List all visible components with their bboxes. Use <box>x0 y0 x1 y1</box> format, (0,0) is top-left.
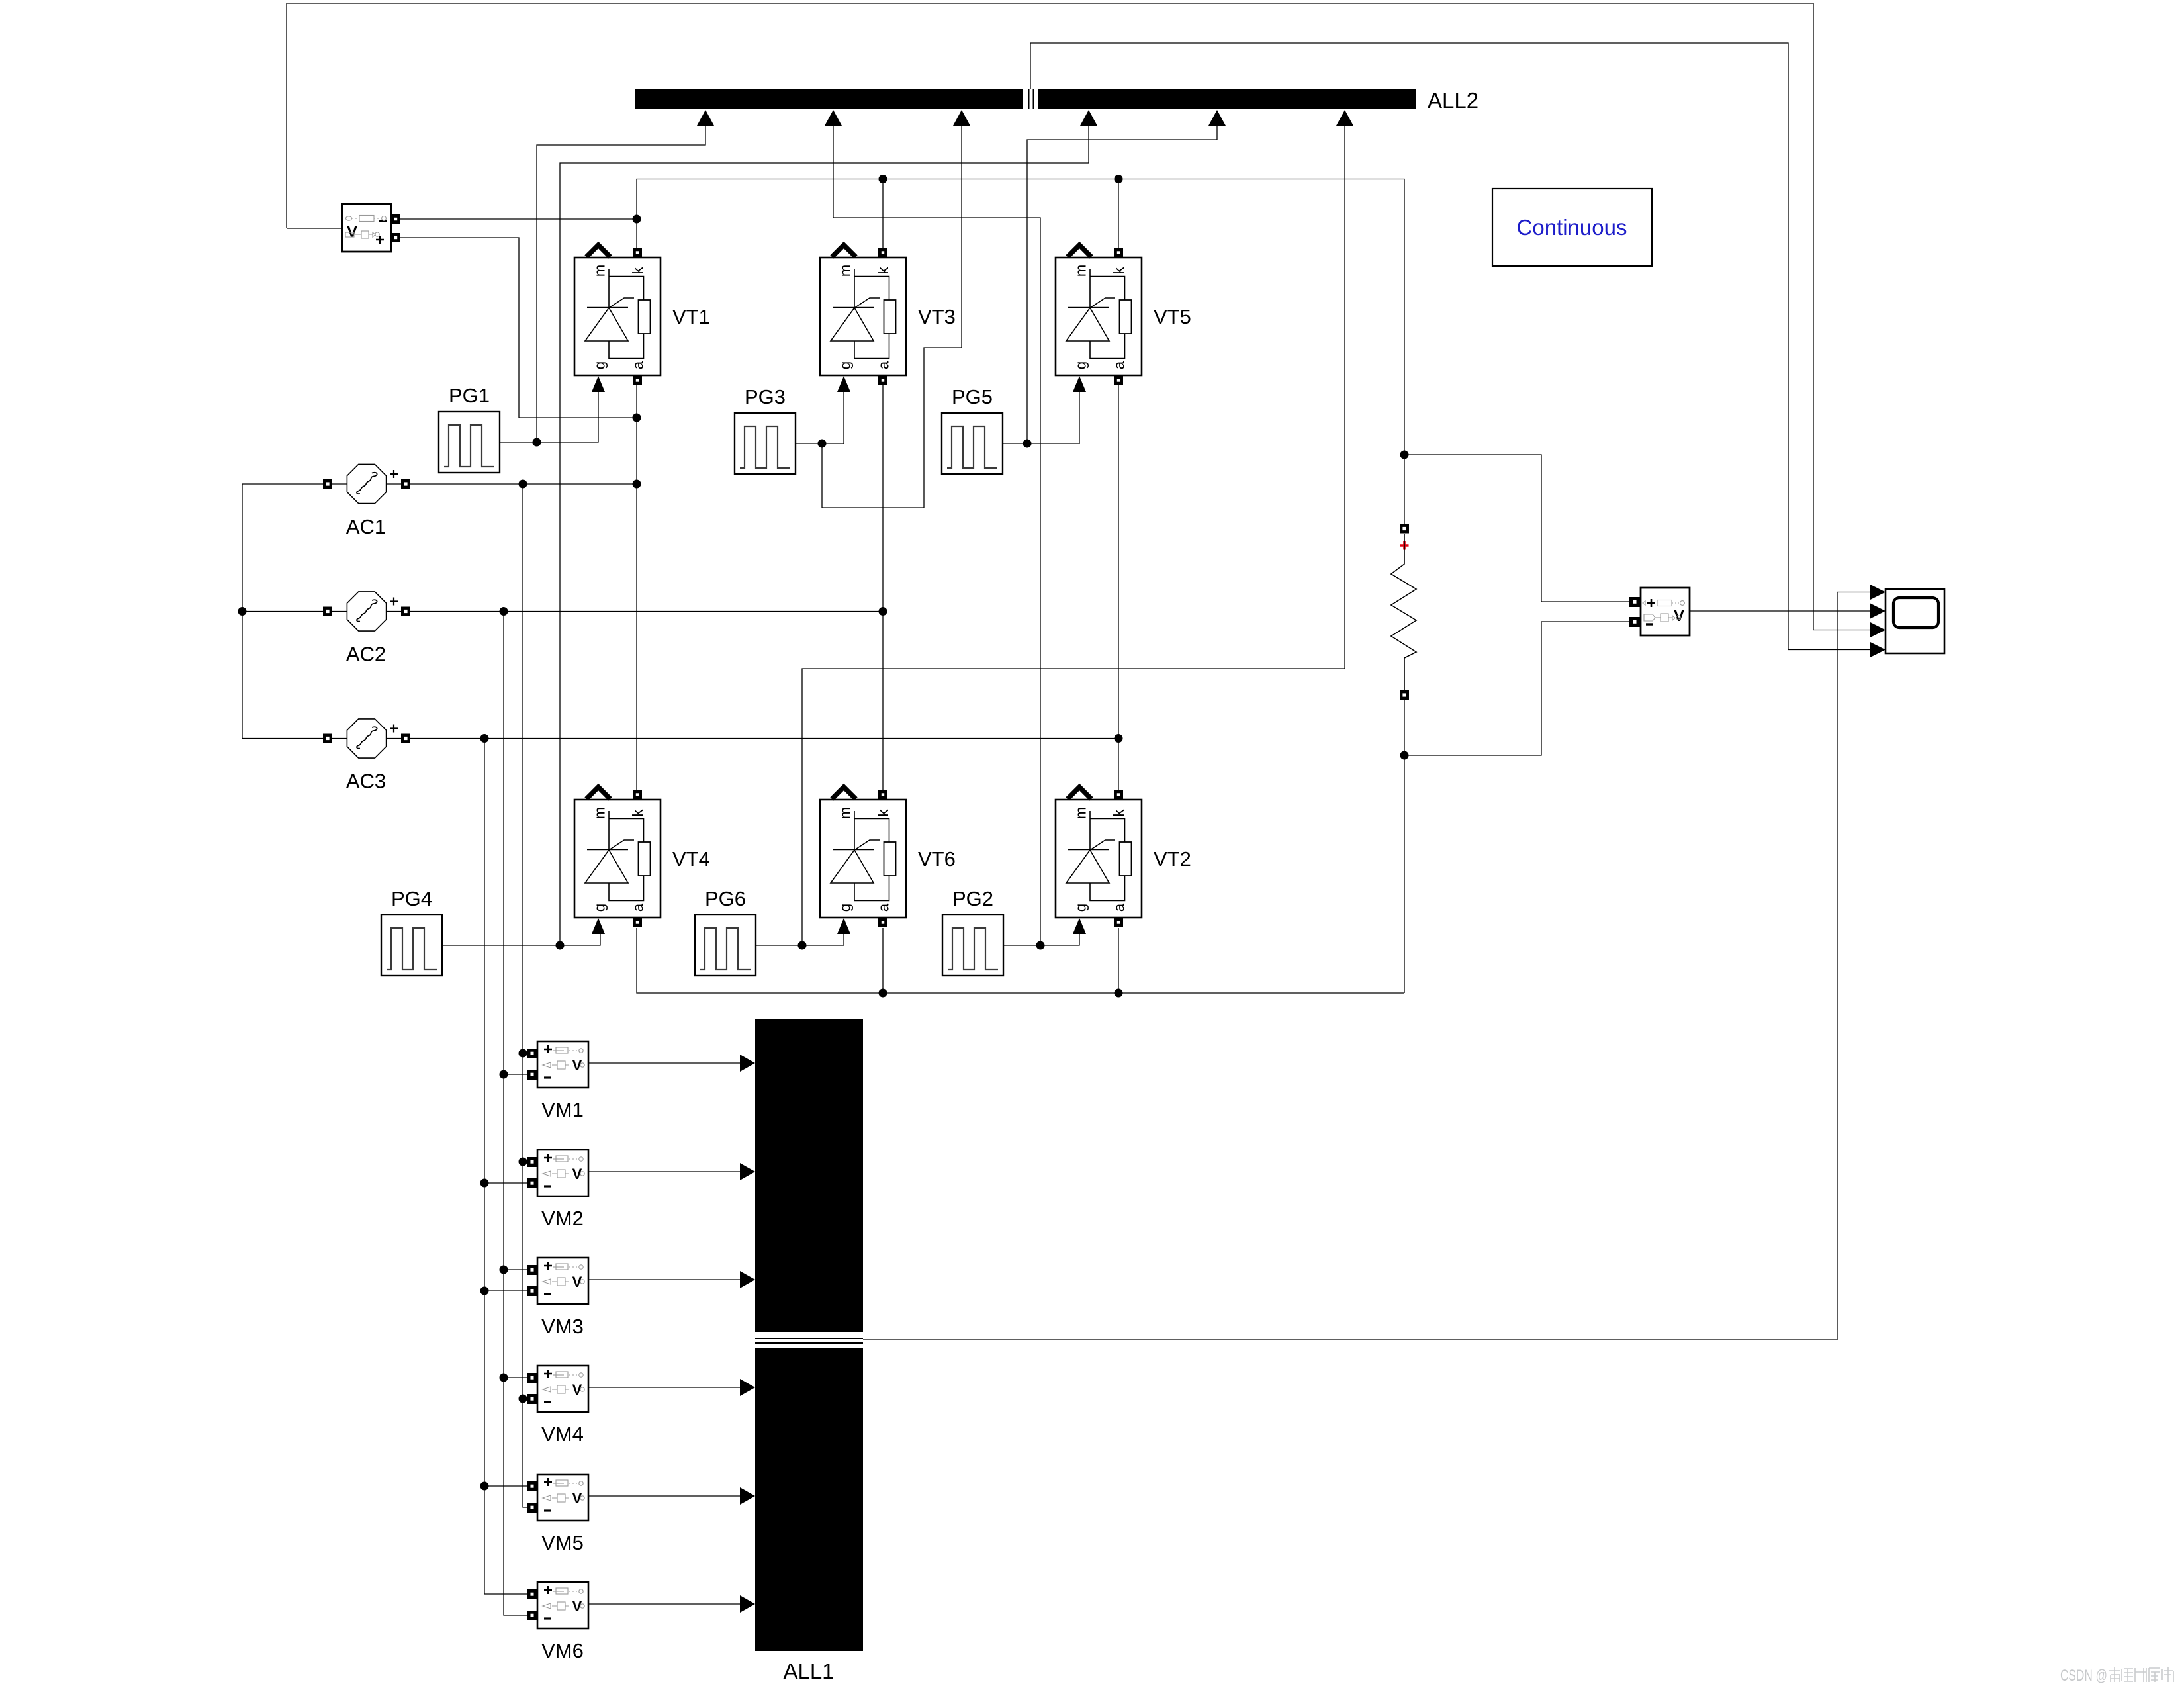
svg-text:AC1: AC1 <box>346 515 386 538</box>
wire V1 output to scope input 3 <box>287 3 1870 630</box>
svg-text:VM4: VM4 <box>541 1423 584 1446</box>
wire PG3 to ALL2 input 3 <box>822 126 962 508</box>
wire PG6 to ALL2 input 6 <box>802 126 1345 945</box>
wire VM3 output to ALL1 <box>588 1279 741 1280</box>
svg-text:VM1: VM1 <box>541 1098 584 1121</box>
wire VM2 output to ALL1 <box>588 1171 741 1172</box>
wire AC2 neutral stub <box>242 611 323 612</box>
voltage measurement V1 <box>342 204 400 252</box>
wire VT2 a drop <box>1118 928 1119 993</box>
wire phase A from AC1 <box>410 483 637 485</box>
wire VM3 plus stub <box>504 1269 530 1270</box>
svg-text:PG3: PG3 <box>745 385 786 408</box>
wire DC plus sense to V2 plus <box>1404 455 1629 602</box>
node neutral AC2 <box>238 607 247 616</box>
wire phase C column VT5a-VT2k <box>1118 385 1119 790</box>
voltage measurement VM4 <box>527 1366 588 1446</box>
wire PG6 to VT6 gate <box>756 933 844 945</box>
voltage measurement VM2 <box>527 1150 588 1230</box>
wire VM6 output to ALL1 <box>588 1603 741 1605</box>
pulse generator PG1 <box>439 384 500 473</box>
node PG4 branch <box>556 941 565 950</box>
wire VM1 minus stub <box>504 1074 530 1075</box>
node DC+ VT3 k <box>879 175 887 183</box>
AC source AC1 <box>323 464 410 538</box>
wire PG3 to VT3 gate <box>796 391 844 444</box>
svg-text:VT3: VT3 <box>918 305 956 328</box>
wire PG4 to VT4 gate <box>442 933 600 945</box>
svg-text:PG2: PG2 <box>952 887 993 910</box>
svg-text:PG6: PG6 <box>705 887 746 910</box>
svg-text:VM6: VM6 <box>541 1639 584 1662</box>
svg-text:Continuous: Continuous <box>1517 215 1627 240</box>
node phase C / VT5 a <box>1115 734 1123 743</box>
wire VM5 plus stub <box>484 1485 530 1487</box>
wire AC1 neutral stub <box>242 483 323 485</box>
pulse generator PG3 <box>735 385 796 474</box>
AC source AC3 <box>323 719 410 793</box>
wire PG5 to ALL2 input 5 <box>1027 126 1217 444</box>
svg-text:VT5: VT5 <box>1154 305 1191 328</box>
svg-text:ALL1: ALL1 <box>783 1659 834 1683</box>
thyristor VT6 <box>820 787 956 934</box>
wire VM1 output to ALL1 <box>588 1062 741 1064</box>
svg-text:VT2: VT2 <box>1154 847 1191 870</box>
wire VM3 minus stub <box>484 1290 530 1291</box>
node VM1 minus <box>500 1070 508 1079</box>
wire VM5 output to ALL1 <box>588 1495 741 1497</box>
wire PG4 to ALL2 input 4 <box>560 126 1089 945</box>
pulse generator PG4 <box>381 887 442 976</box>
wire phase B riser to VM6 minus <box>504 612 530 1616</box>
svg-text:VM5: VM5 <box>541 1531 584 1554</box>
resistor load R <box>1391 524 1416 700</box>
wire VT5 k drop <box>1118 179 1119 248</box>
powergui Continuous block <box>1492 189 1652 266</box>
node V1- / VT1 k <box>633 215 641 224</box>
wire VM4 plus stub <box>504 1377 530 1378</box>
thyristor VT2 <box>1056 787 1191 934</box>
svg-text:ALL2: ALL2 <box>1428 88 1479 113</box>
pulse generator PG6 <box>695 887 756 976</box>
wire V1 plus sense to phase A <box>400 238 637 418</box>
node VM1 plus <box>519 1049 527 1058</box>
svg-text:CSDN @: CSDN @ <box>2060 1667 2107 1685</box>
node DC- VT6 a <box>879 989 887 998</box>
wire VT4 a to DC minus bus <box>637 928 1404 993</box>
wire V1 output stub <box>287 228 342 229</box>
node VM2 minus <box>480 1179 489 1188</box>
svg-text:VT1: VT1 <box>672 305 710 328</box>
node VM5 plus <box>480 1482 489 1491</box>
node phase C tap <box>480 734 489 743</box>
wire phase B column VT3a-VT6k <box>882 385 884 790</box>
voltage measurement VM5 <box>527 1474 588 1554</box>
thyristor VT5 <box>1056 245 1191 392</box>
node PG3 branch <box>818 440 827 448</box>
node DC- sense <box>1400 751 1409 760</box>
node phase B / VT3 a <box>879 607 887 616</box>
pulse generator PG2 <box>942 887 1003 976</box>
node PG1 branch <box>533 438 541 447</box>
svg-text:AC3: AC3 <box>346 770 386 793</box>
wire DC plus bus <box>637 179 1404 524</box>
thyristor VT3 <box>820 245 956 392</box>
svg-text:VT6: VT6 <box>918 847 956 870</box>
AC source AC2 <box>323 592 410 666</box>
node PG6 branch <box>798 941 807 950</box>
node phase A tap <box>519 480 527 489</box>
wire phase C riser to VM6 plus <box>484 739 530 1595</box>
wire VM2 minus stub <box>484 1182 530 1184</box>
node phase A / VT1 a <box>633 480 641 489</box>
wire PG5 to VT5 gate <box>1003 391 1079 444</box>
wire phase B from AC2 <box>410 611 883 612</box>
wire PG2 to ALL2 input 2 <box>833 126 1040 945</box>
svg-text:VM2: VM2 <box>541 1207 584 1230</box>
wire DC minus sense to V2 minus <box>1404 622 1629 755</box>
wire VM4 minus stub <box>523 1398 530 1399</box>
wire VM2 plus stub <box>523 1161 530 1162</box>
wire V2 output to scope input 2 <box>1690 610 1870 612</box>
scope <box>1870 585 1944 658</box>
svg-text:AC2: AC2 <box>346 643 386 666</box>
thyristor VT1 <box>574 245 710 392</box>
node VM3 minus <box>480 1287 489 1295</box>
node PG2 branch <box>1036 941 1045 950</box>
voltage measurement VM6 <box>527 1582 588 1662</box>
node VM3 plus <box>500 1266 508 1274</box>
wire phase A column VT1a-VT4k <box>636 385 637 790</box>
wire PG1 to VT1 gate <box>500 391 598 442</box>
wire ALL2 output to scope input 4 <box>1030 43 1870 650</box>
wire neutral bus <box>242 484 243 739</box>
wire VT6 a drop <box>882 928 884 993</box>
svg-text:VT4: VT4 <box>672 847 710 870</box>
node DC+ sense <box>1400 451 1409 459</box>
node DC- VT2 a <box>1115 989 1123 998</box>
mux ALL2 <box>635 88 1479 126</box>
wire phase C from AC3 <box>410 738 1118 739</box>
watermark CSDN <box>2060 1667 2173 1685</box>
node VM2 plus <box>519 1158 527 1166</box>
mux ALL1 <box>740 1019 863 1683</box>
voltage measurement VM1 <box>527 1041 588 1121</box>
wire ALL1 output to scope input 1 <box>863 592 1870 1340</box>
wire PG2 to VT2 gate <box>1003 933 1079 945</box>
voltage measurement VM3 <box>527 1258 588 1338</box>
node phase B tap <box>500 607 508 616</box>
wire resistor bottom to DC minus bus <box>1404 700 1405 993</box>
svg-text:VM3: VM3 <box>541 1315 584 1338</box>
node VM4 plus <box>500 1374 508 1382</box>
node VM4 minus <box>519 1395 527 1403</box>
wire PG1 to ALL2 input 1 <box>537 126 705 442</box>
node V1+ / VT1 a <box>633 414 641 422</box>
node PG5 branch <box>1023 440 1032 448</box>
wire VM1 plus stub <box>523 1053 530 1054</box>
wire VT3 k drop <box>882 179 884 248</box>
wire V1 minus to VT1 cathode node <box>400 218 637 220</box>
voltage measurement V2 <box>1629 588 1690 635</box>
svg-text:PG1: PG1 <box>449 384 490 407</box>
pulse generator PG5 <box>942 385 1003 474</box>
node DC+ VT5 k <box>1115 175 1123 183</box>
svg-text:PG4: PG4 <box>391 887 432 910</box>
wire phase A riser to VM5 minus <box>523 484 530 1507</box>
svg-text:PG5: PG5 <box>952 385 993 408</box>
wire VM4 output to ALL1 <box>588 1387 741 1388</box>
thyristor VT4 <box>574 787 710 934</box>
wire AC3 neutral stub <box>242 738 323 739</box>
